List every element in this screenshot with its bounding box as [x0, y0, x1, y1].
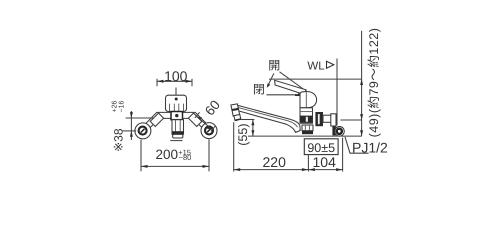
left arm nut: [150, 113, 163, 126]
svg-text:WL: WL: [307, 61, 325, 73]
aerator bottom edge: [235, 119, 241, 120]
svg-text:閉: 閉: [253, 83, 265, 97]
body dark ring: [300, 116, 313, 123]
swivel nut dark band: [302, 131, 313, 135]
svg-text:220: 220: [263, 154, 287, 170]
body cap joint line: [305, 92, 307, 108]
vertical dimension line right: [361, 31, 363, 136]
dimension 100 line: [157, 80, 192, 82]
handle cap skirt lines: [170, 104, 184, 112]
right arm nut: [188, 113, 201, 126]
leader from open label to handle: [280, 72, 307, 91]
rotation arrow toward close label: [268, 74, 274, 85]
spout tip collar dark band: [232, 109, 239, 110]
wall pipe: [323, 115, 331, 122]
lower body bottom cap: [173, 134, 183, 138]
right crank screw slot: [207, 129, 211, 133]
dimension 200 extension lines: [141, 139, 209, 171]
svg-text:+26: +26: [111, 100, 118, 112]
close label leader: [267, 94, 297, 96]
dimension *38 lower reference line (crank centerline): [123, 130, 137, 132]
dimension 60 extension tick lower: [211, 126, 216, 132]
right arm tube: [181, 115, 209, 130]
right crank flange outer circle: [201, 123, 217, 139]
dimension 60 line: [197, 116, 213, 129]
dimension 100 extension lines: [157, 79, 192, 86]
right crank inner ring: [205, 126, 213, 134]
svg-text:(55): (55): [236, 123, 250, 145]
left crank flange outer circle: [135, 123, 151, 139]
spout height reference line upper: [241, 119, 255, 121]
max handle height line (WL): [269, 78, 362, 80]
aerator tip: [234, 115, 241, 121]
lower body dark band: [172, 131, 184, 134]
lever handle side: [275, 80, 307, 94]
spout inner line: [238, 108, 297, 128]
dimension (55) line: [252, 120, 254, 137]
svg-text:90±5: 90±5: [307, 141, 335, 155]
handle cap front: [166, 95, 187, 111]
left arm tube: [143, 115, 172, 130]
swivel nut: [302, 125, 313, 131]
WL pointer triangle: [327, 61, 334, 68]
crank body edge-on: [331, 114, 336, 126]
body center square: [171, 112, 183, 120]
svg-text:開: 開: [268, 58, 280, 72]
body cylinder side: [300, 108, 313, 123]
crank flange ring side: [335, 127, 345, 137]
svg-text:200: 200: [156, 147, 179, 162]
dimension *38 vertical line with outside arrows: [130, 111, 132, 140]
spout tip collar: [231, 104, 240, 116]
dimension 60 extension tick upper: [195, 112, 200, 118]
spout tube: [238, 105, 300, 132]
svg-text:−16: −16: [118, 100, 125, 112]
body cap side: [300, 91, 317, 107]
handle centerline stub: [175, 88, 177, 96]
lever handle bottom thick edge: [295, 94, 309, 96]
crank dark bar: [332, 126, 335, 135]
svg-text:(49)(約79～約122): (49)(約79～約122): [367, 28, 381, 138]
svg-text:※38: ※38: [111, 128, 125, 152]
installation center reference line: [248, 135, 362, 137]
dimension 200 line: [141, 165, 209, 167]
PJ1/2 leader: [345, 137, 369, 153]
lower body column: [172, 120, 184, 135]
left crank inner ring: [139, 127, 147, 135]
pipe center reference line: [341, 119, 362, 121]
svg-text:−80: −80: [179, 153, 192, 162]
lower body base line: [170, 140, 182, 142]
svg-text:104: 104: [313, 154, 337, 170]
dimension *38 upper reference line: [126, 117, 154, 119]
bottom extension lines: [234, 122, 343, 171]
wall connection nut: [315, 112, 323, 126]
svg-text:PJ1/2: PJ1/2: [352, 139, 388, 155]
wall line: [336, 59, 338, 126]
left crank screw slot: [141, 129, 145, 133]
handle cap screw dot: [175, 98, 178, 101]
bottom dimension line: [234, 169, 343, 171]
boxed dimension 90+-5: [304, 139, 338, 155]
